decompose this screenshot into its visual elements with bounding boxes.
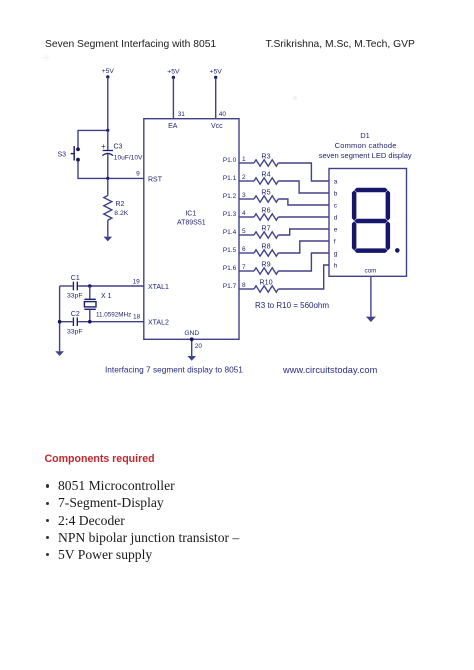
svg-text:R9: R9 bbox=[261, 260, 270, 269]
svg-text:6: 6 bbox=[242, 246, 246, 253]
display segment E bbox=[352, 221, 357, 250]
pin 40 Vcc bbox=[211, 111, 226, 130]
power +5V rail 2 (EA pin 31) bbox=[167, 69, 180, 80]
pin 20 GND bbox=[184, 330, 202, 350]
display segment D bbox=[354, 248, 387, 253]
pin 2 P1.1 bbox=[223, 174, 254, 182]
svg-text:C2: C2 bbox=[71, 311, 80, 318]
svg-text:C3: C3 bbox=[114, 144, 123, 151]
display segment C bbox=[386, 221, 391, 250]
pin 9 RST bbox=[136, 171, 163, 184]
resistor R8 bbox=[254, 242, 278, 257]
wire R3 to display pin a bbox=[278, 163, 329, 181]
pin 31 EA bbox=[168, 111, 185, 130]
svg-text:R5: R5 bbox=[261, 188, 270, 197]
wire XTAL2 pin 18 bbox=[60, 321, 73, 323]
IC1 AT89S51 8051 microcontroller body bbox=[144, 119, 239, 340]
resistor R9 bbox=[254, 260, 278, 274]
svg-text:R8: R8 bbox=[261, 242, 270, 251]
svg-text:P1.2: P1.2 bbox=[223, 193, 237, 200]
svg-text:seven segment LED display: seven segment LED display bbox=[319, 151, 412, 160]
pin 3 P1.2 bbox=[223, 192, 254, 200]
svg-text:f: f bbox=[334, 238, 336, 245]
svg-text:Common cathode: Common cathode bbox=[335, 141, 397, 150]
wire R4 to display pin b bbox=[278, 181, 329, 193]
wire R10 to display pin h bbox=[278, 265, 329, 289]
svg-text:EA: EA bbox=[168, 123, 178, 130]
svg-text:+5V: +5V bbox=[167, 69, 180, 76]
power +5V rail 1 (reset circuit) bbox=[102, 68, 115, 79]
wire R9 to display pin g bbox=[278, 253, 329, 271]
svg-text:R10: R10 bbox=[259, 278, 272, 287]
wire GND pin to ground bbox=[191, 339, 193, 356]
resistor R10 bbox=[254, 278, 278, 292]
svg-text:g: g bbox=[334, 250, 338, 257]
svg-text:18: 18 bbox=[133, 313, 141, 320]
svg-text:R7: R7 bbox=[261, 224, 270, 233]
node junction left rail XTAL2 bbox=[58, 320, 62, 324]
svg-text:D1: D1 bbox=[360, 131, 370, 140]
ground symbol below IC bbox=[187, 356, 196, 361]
node junction GND pin bbox=[190, 337, 194, 341]
svg-text:2: 2 bbox=[242, 174, 246, 181]
svg-text:5: 5 bbox=[242, 228, 246, 235]
svg-text:b: b bbox=[334, 190, 338, 197]
faint artifact smudge 2 bbox=[293, 96, 297, 100]
svg-text:19: 19 bbox=[133, 278, 141, 285]
svg-text:P1.7: P1.7 bbox=[223, 283, 237, 290]
svg-text:Interfacing 7 segment display: Interfacing 7 segment display to 8051 bbox=[105, 365, 243, 375]
svg-text:RST: RST bbox=[148, 176, 163, 183]
svg-text:XTAL2: XTAL2 bbox=[148, 319, 169, 326]
svg-text:d: d bbox=[334, 214, 338, 221]
svg-text:XTAL1: XTAL1 bbox=[148, 284, 169, 291]
svg-text:P1.4: P1.4 bbox=[223, 229, 237, 236]
wire R7 to display pin e bbox=[278, 229, 329, 235]
svg-text:+5V: +5V bbox=[210, 69, 223, 76]
display segment B bbox=[386, 190, 391, 220]
svg-text:+: + bbox=[101, 142, 106, 151]
wire Vcc supply bbox=[215, 78, 217, 119]
crystal X1 11.0592MHz bbox=[84, 286, 131, 322]
wire C1 to XTAL1 bbox=[78, 285, 144, 287]
svg-text:Vcc: Vcc bbox=[211, 123, 223, 130]
display decimal point bbox=[395, 248, 400, 253]
svg-text:com: com bbox=[364, 268, 376, 275]
capacitor C3 bbox=[101, 130, 143, 178]
resistor R2 8.2K bbox=[104, 178, 129, 236]
ground symbol below R2 bbox=[104, 237, 113, 242]
svg-text:R6: R6 bbox=[261, 206, 270, 215]
svg-text:R3: R3 bbox=[261, 152, 270, 161]
svg-text:h: h bbox=[334, 262, 338, 269]
wire XTAL1 pin 19 bbox=[60, 285, 73, 287]
wire left vertical to ground bbox=[59, 286, 61, 351]
pin 1 P1.0 bbox=[223, 156, 254, 164]
display D1 body bbox=[329, 169, 407, 277]
pin 7 P1.6 bbox=[223, 264, 254, 272]
svg-text:R3 to R10 = 560ohm: R3 to R10 = 560ohm bbox=[255, 301, 329, 310]
wire R5 to display pin c bbox=[278, 199, 329, 205]
node junction XTAL1 / X1 bbox=[88, 284, 92, 288]
svg-text:33pF: 33pF bbox=[67, 329, 83, 336]
display segment F bbox=[352, 190, 357, 220]
wire S3 bottom to RST rail bbox=[78, 161, 108, 178]
resistor R3 bbox=[254, 152, 278, 167]
wire top rail to switch S3 bbox=[78, 130, 108, 148]
svg-text:4: 4 bbox=[242, 210, 246, 217]
svg-text:P1.6: P1.6 bbox=[223, 265, 237, 272]
display segment G bbox=[354, 219, 387, 224]
resistor R7 bbox=[254, 224, 278, 239]
arrow com down bbox=[366, 317, 376, 322]
svg-text:20: 20 bbox=[195, 343, 203, 350]
node junction top of C3 bbox=[106, 129, 109, 132]
svg-text:GND: GND bbox=[184, 330, 199, 337]
svg-text:IC1: IC1 bbox=[185, 211, 196, 218]
display D1 heading bbox=[319, 131, 412, 160]
pin 19 XTAL1 bbox=[133, 278, 169, 291]
svg-text:10uF/10V: 10uF/10V bbox=[114, 155, 143, 162]
wire R6 to display pin d bbox=[278, 216, 329, 218]
svg-text:R4: R4 bbox=[261, 170, 270, 179]
svg-text:P1.3: P1.3 bbox=[223, 211, 237, 218]
svg-text:S3: S3 bbox=[58, 152, 67, 159]
svg-text:X 1: X 1 bbox=[101, 293, 112, 300]
wire C2 to XTAL2 bbox=[78, 321, 144, 323]
svg-text:40: 40 bbox=[219, 111, 227, 118]
power +5V rail 3 (Vcc pin 40) bbox=[210, 69, 223, 80]
svg-text:31: 31 bbox=[178, 111, 186, 118]
resistor R5 bbox=[254, 188, 278, 203]
wire RST to IC pin 9 bbox=[108, 177, 144, 179]
svg-text:AT89S51: AT89S51 bbox=[177, 219, 206, 226]
svg-text:www.circuitstoday.com: www.circuitstoday.com bbox=[282, 365, 378, 375]
svg-text:c: c bbox=[334, 202, 338, 209]
svg-text:33pF: 33pF bbox=[67, 293, 83, 300]
wire R8 to display pin f bbox=[278, 241, 329, 253]
svg-text:11.0592MHz: 11.0592MHz bbox=[96, 311, 131, 318]
pin 5 P1.4 bbox=[223, 228, 254, 236]
svg-text:3: 3 bbox=[242, 192, 246, 199]
capacitor C1 33pF bbox=[67, 275, 83, 300]
svg-text:C1: C1 bbox=[71, 275, 80, 282]
faint artifact smudge 1 bbox=[43, 55, 50, 61]
ground symbol crystal rail bbox=[55, 351, 64, 356]
pin 8 P1.7 bbox=[223, 282, 254, 290]
pin 4 P1.3 bbox=[223, 210, 254, 218]
svg-text:e: e bbox=[334, 226, 338, 233]
display segment A bbox=[354, 188, 387, 193]
wire com to cathode arrow bbox=[370, 276, 372, 316]
wire EA supply bbox=[172, 78, 174, 119]
svg-text:1: 1 bbox=[242, 156, 246, 163]
svg-text:R2: R2 bbox=[116, 201, 125, 208]
svg-text:a: a bbox=[334, 178, 338, 185]
svg-text:7: 7 bbox=[242, 264, 246, 271]
switch S3 bbox=[58, 146, 80, 162]
resistor R6 bbox=[254, 206, 278, 221]
svg-text:P1.1: P1.1 bbox=[223, 175, 237, 182]
svg-text:8: 8 bbox=[242, 282, 246, 289]
svg-text:+5V: +5V bbox=[102, 68, 115, 75]
svg-text:8.2K: 8.2K bbox=[114, 210, 128, 217]
wire +5V rail1 down to switch rail bbox=[107, 77, 109, 130]
node junction XTAL2 / X1 bbox=[88, 320, 92, 324]
resistor R4 bbox=[254, 170, 278, 185]
capacitor C2 33pF bbox=[67, 311, 83, 336]
pin 6 P1.5 bbox=[223, 246, 254, 254]
svg-text:P1.5: P1.5 bbox=[223, 247, 237, 254]
pin 18 XTAL2 bbox=[133, 313, 169, 326]
svg-text:P1.0: P1.0 bbox=[223, 157, 237, 164]
node junction RST rail bbox=[106, 177, 109, 180]
svg-text:9: 9 bbox=[136, 171, 140, 178]
